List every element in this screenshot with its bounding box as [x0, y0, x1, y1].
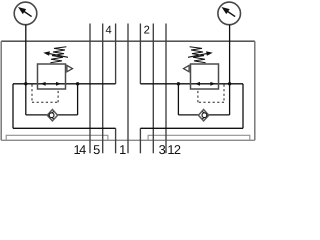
- right flow line: [140, 83, 243, 85]
- svg-text:2: 2: [174, 142, 181, 157]
- outer plate bottom edge: [1, 139, 255, 141]
- svg-text:5: 5: [93, 142, 100, 157]
- regulator R1 spring: [50, 47, 66, 63]
- right output drop wire: [242, 84, 244, 129]
- left check line wire: [26, 114, 78, 116]
- svg-text:1: 1: [119, 142, 126, 157]
- regulator R1 flow arrows: [40, 82, 61, 86]
- channel 5 vertical: [102, 24, 104, 154]
- node B2 junction dot: [177, 82, 180, 85]
- check valve V1 (left): [47, 110, 57, 121]
- regulator R2 flow arrows: [195, 82, 216, 86]
- right check line wire: [178, 114, 229, 116]
- gauge G1 (left): [14, 2, 37, 25]
- port 4 top vertical: [115, 24, 117, 84]
- check valve V2 (right): [198, 110, 208, 121]
- node A2 junction dot: [228, 82, 231, 85]
- regulator R2 body (right): [191, 64, 219, 89]
- channel 14 vertical: [89, 24, 91, 154]
- svg-text:4: 4: [105, 25, 111, 37]
- port 2 bottom vertical: [139, 128, 141, 153]
- svg-text:3: 3: [159, 142, 166, 157]
- node B1 junction dot: [76, 82, 79, 85]
- left output drop wire: [12, 84, 14, 129]
- left inner bottom wire: [13, 127, 116, 129]
- channel 12 vertical: [165, 24, 167, 154]
- gauge G2 stem wire: [229, 25, 231, 115]
- regulator R1 pilot dashed line: [32, 85, 58, 103]
- svg-text:4: 4: [79, 142, 86, 157]
- node A1 junction dot: [24, 82, 27, 85]
- regulator R2 spring: [190, 47, 206, 63]
- right inner bottom wire: [140, 127, 243, 129]
- svg-text:2: 2: [144, 25, 150, 37]
- left flow line: [13, 83, 116, 85]
- port 2 top vertical: [139, 24, 141, 84]
- node B1 riser wire: [77, 84, 79, 115]
- port 4 bottom vertical: [115, 128, 117, 153]
- regulator R2 adjust arrow: [188, 53, 208, 57]
- outer plate left edge: [0, 41, 2, 140]
- regulator R1 adjust arrow: [49, 53, 69, 57]
- gauge G1 stem wire: [25, 25, 27, 115]
- channel 1 vertical: [127, 24, 129, 154]
- node B2 riser wire: [177, 84, 179, 115]
- regulator R2 relief vent triangle: [184, 65, 190, 71]
- outer plate top edge: [1, 40, 255, 42]
- channel 3 vertical: [152, 24, 154, 154]
- left cartridge staple line: [6, 135, 108, 140]
- regulator R1 relief vent triangle: [67, 65, 73, 71]
- regulator R2 pilot dashed line: [198, 85, 224, 103]
- regulator R1 body (left): [38, 64, 66, 89]
- right cartridge staple line: [148, 135, 250, 140]
- outer plate right edge: [254, 41, 256, 140]
- gauge G2 (right): [218, 2, 241, 25]
